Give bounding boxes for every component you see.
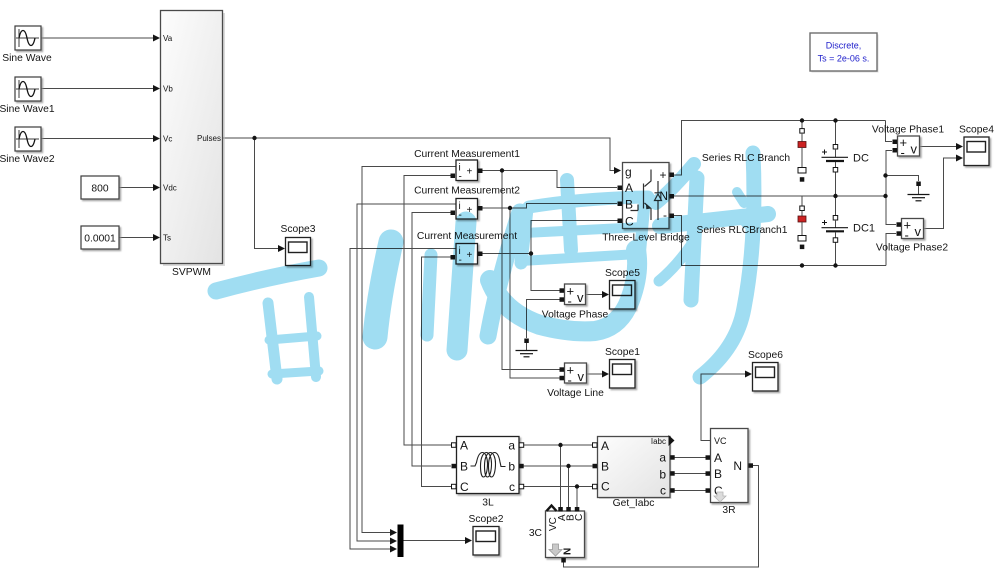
measurement Current Measurement1 (414, 149, 520, 183)
svg-text:DC: DC (853, 153, 869, 165)
svg-text:Ts: Ts (163, 234, 171, 243)
wire bridge + to top rail (673, 121, 886, 176)
source Sine Wave (2, 26, 52, 64)
wire Get_Iabc a to 3R A (674, 457, 706, 459)
svg-text:Current Measurement1: Current Measurement1 (414, 149, 520, 160)
subsystem Get_Iabc (593, 435, 675, 509)
arrow into Va (153, 35, 160, 42)
wire mux to Scope2 (404, 540, 467, 542)
watermark char Chuan stroke2 (427, 255, 431, 335)
source Sine Wave1 (0, 77, 55, 115)
svg-text:Vb: Vb (163, 85, 173, 94)
inductor coil icon (471, 453, 506, 478)
arrow into Scope1 (602, 371, 609, 378)
arrow into Scope2 (465, 537, 472, 544)
arrow into Scope4 input1 (956, 143, 963, 150)
svg-text:-: - (459, 172, 462, 183)
svg-text:-: - (901, 145, 905, 160)
svg-text:3R: 3R (722, 505, 735, 516)
wire Get_Iabc c to 3R C (674, 490, 706, 492)
svg-text:A: A (601, 439, 609, 453)
watermark char Bai box (268, 303, 277, 379)
svg-text:DC1: DC1 (853, 223, 875, 235)
svg-text:-: - (568, 373, 572, 388)
svg-text:Scope3: Scope3 (281, 224, 316, 235)
scope Scope5 (605, 268, 640, 309)
watermark char Dian (567, 180, 571, 250)
svg-text:Scope6: Scope6 (748, 350, 783, 361)
diode D icon (655, 181, 662, 220)
svg-text:B: B (601, 460, 609, 474)
wire Voltage Phase1 v to Scope4 (920, 146, 958, 148)
arrow into Vb (153, 85, 160, 92)
scope Scope2 (469, 514, 504, 555)
wire Voltage Phase - to ground (527, 300, 561, 339)
wire Sine Wave1 to Vb (41, 88, 154, 90)
svg-text:C: C (574, 514, 585, 521)
ARROWHEADS (153, 35, 963, 553)
wire 3L A to CM1 port (404, 176, 452, 446)
arrow into Scope6 (745, 371, 752, 378)
svg-text:Sine Wave2: Sine Wave2 (0, 154, 55, 165)
node C junction (529, 251, 533, 255)
constant 0.0001 (81, 226, 119, 249)
svg-text:Ts = 2e-06 s.: Ts = 2e-06 s. (818, 54, 870, 64)
scope Scope1 (605, 347, 640, 388)
ground (near Scope4) (908, 182, 930, 201)
arrow into mux in2 (390, 538, 397, 545)
measurement Current Measurement2 (414, 186, 520, 222)
gray arrow in 3C (549, 544, 562, 556)
ground (below Voltage Phase) (516, 339, 538, 357)
wire CM1 i output to mux (362, 167, 456, 533)
source DC (822, 145, 869, 173)
svg-text:a: a (508, 439, 515, 453)
svg-text:Scope4: Scope4 (959, 125, 994, 136)
wire Series RLC Branch stub (801, 121, 803, 130)
svg-text:Current Measurement2: Current Measurement2 (414, 186, 520, 197)
annotation Discrete powergui (810, 33, 879, 73)
measurement Voltage Phase (542, 284, 609, 321)
node bottom rail RLC1 (800, 263, 804, 267)
measurement Voltage Phase1 (872, 125, 944, 161)
svg-text:B: B (714, 467, 722, 481)
mux (398, 525, 404, 558)
svg-text:Get_Iabc: Get_Iabc (613, 498, 655, 509)
wire phase b branch down to 3C B (568, 466, 570, 507)
node top rail DC (833, 118, 837, 122)
node Pulses junction (252, 136, 256, 140)
wire node A branch down to Voltage Line + (502, 171, 560, 370)
wire CM3 output (482, 253, 532, 255)
transistor IGBT icon (631, 170, 652, 221)
subsystem 3R (706, 429, 754, 517)
svg-text:v: v (577, 290, 584, 305)
svg-text:Vc: Vc (163, 135, 172, 144)
svg-text:-: - (568, 294, 572, 309)
ports bridge (618, 186, 623, 191)
scope Scope4 (959, 125, 994, 166)
watermark char Chuan stroke1 (375, 242, 391, 337)
wire phase a branch down to 3C A (560, 445, 562, 507)
wire Get_Iabc b to 3R B (674, 473, 706, 475)
node mid rail DC (833, 194, 837, 198)
arrow into Ts (153, 234, 160, 241)
svg-text:c: c (509, 480, 515, 494)
svg-text:Vdc: Vdc (163, 184, 177, 193)
wire Voltage Phase2 v to Scope4 second input (924, 158, 958, 229)
measurement Current Measurement (417, 231, 517, 266)
wire bridge - to bottom rail (673, 216, 886, 266)
arrow into Vc (153, 135, 160, 142)
wire 3L b to Get_Iabc B (523, 465, 597, 467)
svg-text:Scope2: Scope2 (469, 514, 504, 525)
subsystem 3C (529, 506, 585, 563)
node B junction (508, 206, 512, 210)
svg-text:3C: 3C (529, 528, 543, 539)
wire CM2 output to bridge B (482, 204, 618, 209)
svg-text:C: C (601, 480, 610, 494)
wire 800 to Vdc (119, 187, 154, 189)
wire node B branch down to Voltage Line - (510, 208, 560, 378)
svg-text:C: C (460, 480, 469, 494)
watermark char Bai top bar (216, 268, 319, 291)
arrow into Scope5 (602, 291, 609, 298)
wire DC1 stubs (835, 196, 837, 216)
wire Voltage Phase v to Scope5 (586, 294, 604, 296)
wire 3L c to Get_Iabc C (523, 486, 597, 488)
wire phase c branch down to 3C C (576, 487, 578, 508)
svg-text:A: A (714, 451, 722, 465)
svg-text:Pulses: Pulses (197, 134, 221, 143)
measurement Voltage Line (547, 363, 604, 400)
node A junction (500, 168, 504, 172)
wire ground branch near Scope4 (886, 176, 919, 182)
wire N net vertical (VP1- / ground / VP2+) (886, 151, 896, 225)
source DC1 (822, 216, 876, 243)
node phase c tap (575, 484, 579, 488)
svg-text:Sine Wave1: Sine Wave1 (0, 104, 55, 115)
svg-text:v: v (911, 142, 918, 157)
svg-text:+: + (659, 168, 666, 182)
arrow into Scope3 (278, 245, 285, 252)
node phase b tap (566, 464, 570, 468)
svg-text:Voltage Phase2: Voltage Phase2 (876, 243, 948, 254)
svg-text:SVPWM: SVPWM (172, 267, 211, 278)
svg-text:800: 800 (91, 184, 108, 195)
wire 3L a to Get_Iabc A (523, 444, 597, 446)
subsystem SVPWM (161, 11, 226, 279)
wire bridge N to middle rail (674, 195, 886, 197)
svg-text:g: g (625, 165, 632, 179)
wire Sine Wave to Va (41, 37, 154, 39)
arrow into bridge g (614, 167, 621, 174)
svg-text:A: A (460, 439, 468, 453)
svg-text:N: N (733, 459, 742, 473)
svg-text:v: v (578, 369, 585, 384)
arrow into Scope4 input2 (956, 155, 963, 162)
scope Scope3 (281, 224, 316, 266)
wire Pulses branch to Scope3 (255, 138, 280, 249)
wire CM1 output to bridge A (482, 171, 618, 188)
wire node C vertical to bridge C and Voltage Phase + (531, 221, 618, 291)
wire Sine Wave2 to Vc (41, 138, 154, 140)
arrow into Vdc (153, 184, 160, 191)
ports 3L (452, 443, 457, 448)
inductor block 3L (452, 437, 524, 509)
measurement Voltage Phase2 (876, 218, 948, 254)
node top rail RLC (800, 118, 804, 122)
constant 800 (81, 176, 119, 199)
wire 3L C to CM3 port (422, 257, 453, 487)
wire Voltage Line v to Scope1 (587, 373, 604, 375)
source Sine Wave2 (0, 127, 55, 165)
svg-text:Voltage Line: Voltage Line (547, 388, 604, 399)
node ground branch (883, 173, 887, 177)
branch Series RLC Branch1 (vertical) (798, 206, 806, 249)
svg-text:b: b (508, 460, 515, 474)
svg-text:Iabc: Iabc (651, 437, 666, 446)
svg-text:VC: VC (714, 436, 727, 446)
wire DC stubs (835, 121, 837, 145)
svg-text:-: - (905, 228, 909, 243)
svg-text:3L: 3L (482, 498, 494, 509)
node mid rail right (883, 194, 887, 198)
wire Series RLC Branch1 stub (801, 196, 803, 207)
svg-text:+: + (467, 167, 473, 178)
wire bottom rail up to Voltage Phase2 - (886, 234, 896, 266)
svg-text:B: B (460, 460, 468, 474)
svg-text:c: c (660, 484, 666, 498)
wire CM2 i output to mux (357, 204, 456, 541)
svg-text:0.0001: 0.0001 (84, 234, 116, 245)
node bottom rail DC1 (833, 263, 837, 267)
svg-text:Discrete,: Discrete, (826, 41, 862, 51)
branch Series RLC Branch (vertical) (798, 129, 806, 182)
scope Scope6 (748, 350, 783, 391)
wire Pulses to g (223, 138, 620, 171)
arrow into mux in1 (390, 529, 397, 536)
wire 3R VC to Scope6 (701, 374, 746, 441)
svg-text:Voltage Phase1: Voltage Phase1 (872, 125, 944, 136)
wire 0.0001 to Ts (119, 237, 154, 239)
svg-text:a: a (659, 451, 666, 465)
svg-text:Sine Wave: Sine Wave (2, 53, 52, 64)
wire 3L B to CM2 port (412, 213, 452, 467)
wire top rail down to Voltage Phase1 + (886, 121, 893, 142)
WATERMARK (216, 153, 768, 379)
node phase a tap (558, 443, 562, 447)
svg-text:v: v (915, 224, 922, 239)
svg-text:Scope1: Scope1 (605, 347, 640, 358)
wire CM3 i output to mux (350, 249, 456, 550)
bridge Three-Level Bridge (602, 163, 690, 244)
watermark char Ke (656, 164, 694, 203)
wire 3C z to 3R N (564, 466, 759, 568)
svg-text:Va: Va (163, 34, 173, 43)
svg-text:N: N (563, 548, 574, 555)
svg-text:b: b (659, 468, 666, 482)
watermark char Chuan stroke3 (457, 222, 466, 350)
arrow into mux in3 (390, 546, 397, 553)
